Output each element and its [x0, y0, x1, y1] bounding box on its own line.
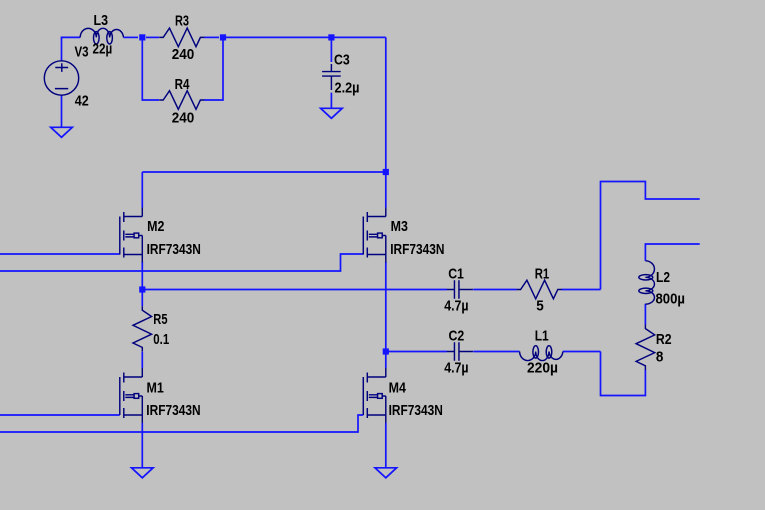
junction M3 source/M4 drain: [383, 348, 389, 354]
svg-text:R5: R5: [153, 311, 167, 328]
voltage source V3 circle: [44, 61, 78, 95]
svg-text:V3: V3: [75, 44, 89, 61]
svg-text:R4: R4: [175, 76, 190, 93]
wire R5 to M1 drain: [141, 352, 143, 369]
svg-text:IRF7343N: IRF7343N: [147, 241, 201, 258]
wire rail M2-M3: [142, 171, 385, 173]
svg-text:M2: M2: [147, 218, 164, 235]
ground at M1 source: [132, 468, 154, 478]
svg-text:2.2µ: 2.2µ: [335, 79, 360, 96]
svg-text:22µ: 22µ: [93, 40, 113, 57]
svg-text:220µ: 220µ: [527, 359, 558, 376]
wire bottom rail to M4 gate: [0, 415, 363, 432]
svg-text:M3: M3: [391, 218, 408, 235]
wire R1 to out column: [562, 289, 601, 291]
svg-text:8: 8: [656, 349, 664, 366]
wire node C down to C3: [330, 37, 332, 62]
svg-text:IRF7343N: IRF7343N: [389, 402, 443, 419]
ground at V3: [51, 127, 73, 137]
wire C1 to R1: [473, 289, 516, 291]
wire V3 top to L3: [62, 37, 81, 61]
svg-text:240: 240: [172, 46, 195, 63]
svg-text:IRF7343N: IRF7343N: [146, 402, 200, 419]
mosfet M4: [363, 368, 386, 423]
node A junction: [139, 34, 145, 40]
wire C3 to ground: [330, 93, 332, 109]
svg-text:M1: M1: [147, 380, 164, 397]
wire C2 node to C2: [386, 351, 447, 353]
wire M4 source to ground: [385, 423, 387, 468]
svg-text:C3: C3: [334, 52, 350, 69]
wire out column up and over: [601, 182, 700, 290]
svg-text:800µ: 800µ: [656, 291, 686, 308]
mosfet M3: [363, 208, 386, 263]
svg-text:0.1: 0.1: [153, 331, 169, 348]
svg-text:C2: C2: [449, 327, 465, 344]
inductor L2: [645, 261, 654, 304]
wire R4 up to node B: [204, 37, 223, 100]
resistor R1: [517, 280, 562, 299]
wire mid rail to C1: [142, 289, 447, 291]
wire L1 to return column: [563, 351, 601, 353]
wire rail down to M2 drain: [141, 172, 143, 208]
svg-text:L2: L2: [656, 269, 670, 286]
svg-text:42: 42: [75, 92, 89, 109]
wire V3 bottom to ground: [61, 95, 63, 127]
svg-text:240: 240: [172, 109, 195, 126]
capacitor C1: [447, 280, 473, 299]
wire M2 gate input: [0, 253, 120, 255]
wire node A to R3: [146, 36, 159, 38]
wire L2 to R2: [644, 304, 646, 325]
wire R3 to node B: [204, 36, 219, 38]
svg-text:R3: R3: [175, 12, 189, 29]
wire M3 gate input: [0, 254, 363, 271]
node B junction: [220, 34, 226, 40]
inductor L1: [520, 352, 563, 361]
svg-text:R2: R2: [656, 331, 672, 348]
wire M1 source to ground: [141, 423, 143, 468]
svg-text:L1: L1: [535, 327, 549, 344]
node C junction (C3 tap): [328, 34, 334, 40]
svg-text:L3: L3: [94, 12, 109, 29]
wire M2 source to mid node: [141, 262, 143, 290]
junction rail/M3 drain: [383, 169, 389, 175]
svg-text:4.7µ: 4.7µ: [444, 359, 468, 376]
inductor L3: [80, 28, 123, 37]
resistor R4: [159, 91, 204, 110]
wire node B to node C and M3 column: [223, 36, 386, 38]
svg-text:R1: R1: [535, 265, 550, 282]
capacitor C3: [322, 64, 341, 90]
capacitor C2: [447, 342, 473, 361]
resistor R3: [159, 28, 204, 47]
wire mid node down to R5: [141, 290, 143, 307]
wire C2 node down to M4 drain: [385, 352, 387, 369]
svg-text:5: 5: [536, 297, 544, 314]
wire M3 column down: [385, 37, 387, 207]
mosfet M1: [120, 368, 143, 423]
ground at C3: [321, 108, 343, 118]
resistor R5: [133, 306, 152, 351]
ground at M4 source: [375, 468, 397, 478]
svg-text:4.7µ: 4.7µ: [444, 297, 468, 314]
wire node A down to R4: [142, 37, 159, 100]
wire C2 to L1: [473, 351, 519, 353]
wire return loop: [601, 352, 646, 396]
mosfet M2: [120, 208, 143, 263]
svg-text:IRF7343N: IRF7343N: [390, 241, 444, 258]
svg-text:C1: C1: [448, 265, 464, 282]
wire M3 source down: [385, 262, 387, 352]
wire L3 to node A: [124, 36, 139, 38]
wire L2 top lead: [645, 244, 699, 261]
junction mid node: [139, 286, 145, 292]
resistor R2: [636, 325, 655, 370]
wire M1 gate input: [0, 414, 120, 416]
svg-text:M4: M4: [389, 380, 407, 397]
